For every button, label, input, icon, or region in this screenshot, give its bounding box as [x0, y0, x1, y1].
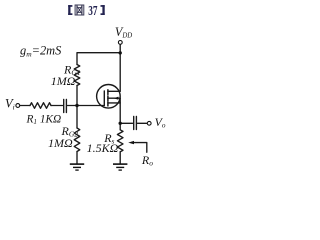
- node gate junction: [75, 104, 78, 107]
- wire Vi to R1: [20, 105, 30, 107]
- resistor RG1: [74, 65, 80, 86]
- svg-text:Vi: Vi: [5, 97, 15, 112]
- node VDD junction: [119, 51, 122, 54]
- node source junction: [119, 122, 122, 125]
- ground right: [113, 164, 127, 170]
- wire top rail VDD to RG1: [77, 53, 120, 65]
- svg-text:gm=2mS: gm=2mS: [20, 44, 61, 59]
- ground left: [70, 164, 84, 170]
- svg-text:R1 1KΩ: R1 1KΩ: [26, 114, 62, 127]
- resistor R1: [30, 103, 51, 109]
- wire RS to ground: [119, 152, 121, 164]
- capacitor C1: [63, 100, 65, 113]
- svg-text:Vo: Vo: [155, 115, 166, 130]
- mosfet channel segment top: [107, 90, 109, 95]
- wire C2 to Vo terminal: [137, 122, 147, 124]
- mosfet body lead: [108, 97, 120, 99]
- title bracket left: [68, 5, 72, 15]
- svg-text:1MΩ: 1MΩ: [48, 136, 73, 150]
- wire C1 to gate: [67, 105, 104, 107]
- terminal Vi: [16, 104, 20, 108]
- mosfet channel segment middle: [107, 96, 109, 101]
- resistor RS: [117, 130, 123, 152]
- title bracket right: [101, 5, 105, 15]
- svg-text:37: 37: [88, 2, 97, 19]
- svg-text:1.5KΩ: 1.5KΩ: [87, 141, 119, 155]
- wire R1 to C1: [51, 105, 63, 107]
- mosfet source lead: [108, 103, 120, 123]
- wire RG1 to gate node: [76, 86, 78, 106]
- mosfet drain lead: [108, 90, 120, 92]
- mosfet Q1 body circle: [97, 85, 121, 109]
- title hanzi 圖: [75, 5, 84, 15]
- resistor RG2: [74, 128, 80, 152]
- wire RG2 to ground: [76, 152, 78, 164]
- mosfet channel segment bottom: [107, 102, 109, 106]
- mosfet body arrow: [114, 97, 119, 100]
- capacitor C2: [133, 117, 135, 130]
- wire source node to RS: [119, 123, 121, 130]
- wire gate node to RG2: [76, 106, 78, 129]
- terminal VDD: [118, 41, 122, 45]
- mosfet body-source connector: [119, 98, 121, 103]
- wire VDD stub: [119, 44, 121, 91]
- terminal Vo: [147, 121, 151, 125]
- svg-text:Ro: Ro: [141, 153, 153, 168]
- svg-text:1MΩ: 1MΩ: [51, 74, 76, 88]
- wire source node to C2: [120, 122, 132, 124]
- svg-text:VDD: VDD: [115, 25, 132, 40]
- arrow Ro head: [128, 141, 134, 144]
- mosfet gate bar: [103, 91, 105, 106]
- arrow Ro pointer: [132, 143, 147, 153]
